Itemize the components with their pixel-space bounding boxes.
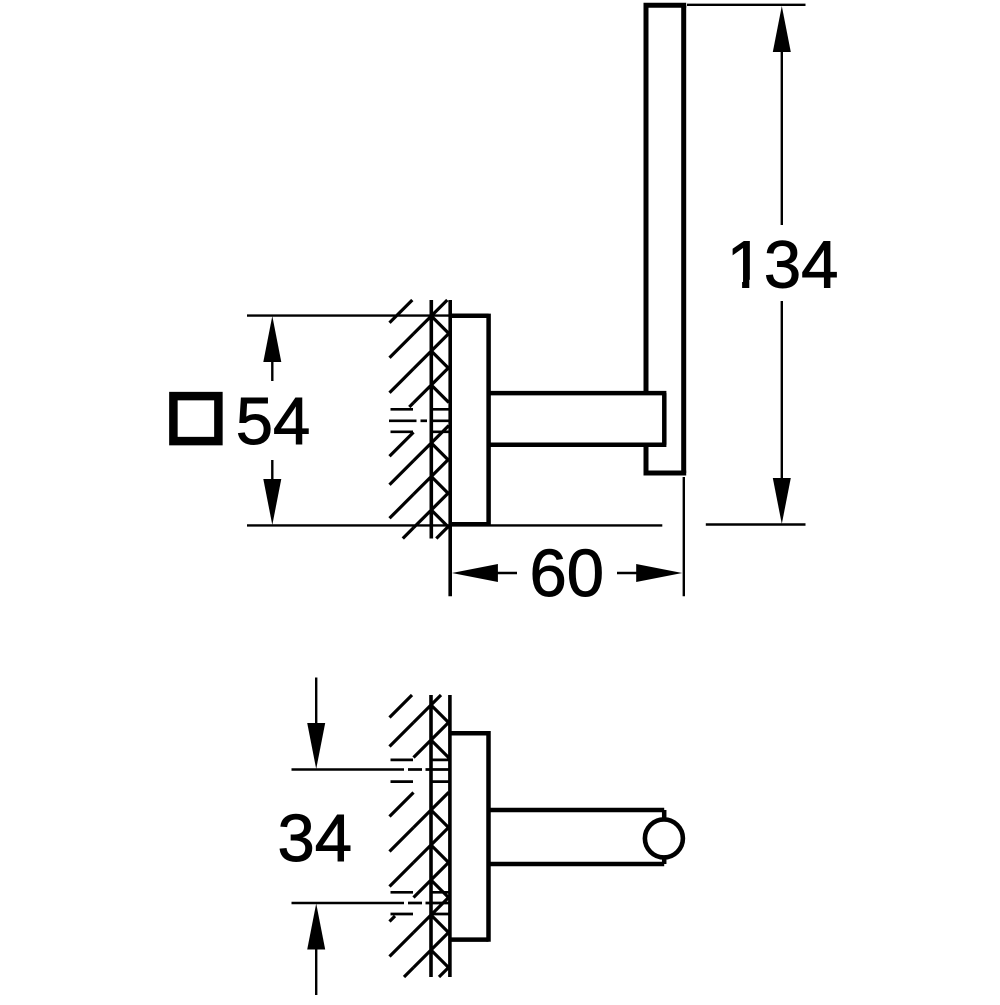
svg-text:60: 60: [530, 536, 605, 611]
svg-text:54: 54: [236, 384, 311, 459]
svg-text:134: 134: [727, 228, 839, 303]
svg-text:34: 34: [278, 801, 353, 876]
